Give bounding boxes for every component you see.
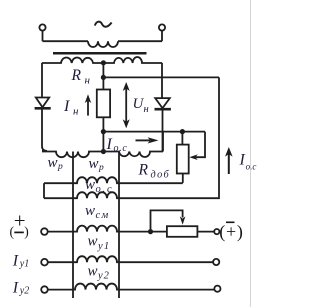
svg-text:доб: доб (151, 170, 171, 181)
winding row3 woc bottom (44, 192, 219, 198)
svg-text:н: н (144, 104, 149, 115)
wire top horizontal right (118, 40, 162, 42)
label plus minus left (10, 208, 29, 239)
transformer core (53, 52, 147, 55)
label Rn (71, 67, 91, 86)
svg-text:w: w (89, 156, 99, 172)
winding row2 woc top (44, 177, 183, 183)
svg-text:р: р (57, 162, 63, 172)
node wiper tap (148, 229, 153, 234)
wire right branch down (161, 63, 163, 98)
svg-text:w: w (48, 155, 58, 171)
winding row1 wp (42, 152, 163, 158)
label minus plus right (219, 222, 243, 243)
wire Rdob top stub (181, 132, 183, 145)
wire T2 down (161, 31, 163, 41)
arrow Ioc mid (136, 137, 159, 143)
label Ioc mid (106, 136, 128, 154)
arrow Ioc right up (225, 147, 233, 174)
svg-text:о.с: о.с (96, 184, 114, 195)
svg-text:у2: у2 (19, 286, 29, 297)
wire Rdob bottom stub (182, 174, 184, 183)
label Un (133, 96, 149, 115)
page edge artifact (250, 0, 252, 307)
svg-text:): ) (24, 224, 29, 239)
label Ioc right (239, 152, 257, 172)
label wy1 (88, 234, 111, 252)
svg-text:р: р (98, 163, 104, 173)
svg-text:н: н (73, 106, 79, 118)
wire pot to terminal (197, 231, 214, 233)
svg-text:I: I (106, 136, 113, 153)
potentiometer body (167, 226, 198, 237)
wire top horizontal left (43, 40, 89, 42)
svg-text:I: I (63, 98, 70, 115)
svg-text:(: ( (10, 224, 15, 239)
terminal T1 (AC left) (39, 24, 45, 30)
wire left branch to stack (42, 108, 47, 151)
diode VD2 (155, 98, 171, 109)
terminal Iy1 left (41, 259, 48, 266)
winding row6 wy2 (48, 284, 215, 290)
svg-text:R: R (71, 67, 82, 84)
label wy2 (88, 264, 110, 282)
label Iy1 (12, 252, 29, 269)
wire T1 down (42, 31, 44, 41)
winding row5 wy1 (48, 256, 213, 262)
label Rdob (138, 162, 171, 181)
svg-text:I: I (239, 152, 246, 169)
rheostat Rdob body (177, 145, 189, 174)
core leg left (72, 152, 74, 299)
svg-text:у1: у1 (19, 259, 29, 270)
arrowhead Rdob wiper (189, 154, 197, 160)
svg-text:R: R (138, 162, 149, 179)
svg-text:н: н (85, 74, 91, 86)
svg-text:о.с: о.с (246, 162, 257, 172)
AC tilde symbol (95, 22, 112, 27)
label wp left (48, 155, 64, 172)
wire Rdob top line (103, 131, 205, 133)
node B (101, 129, 106, 134)
winding primary W1 (88, 41, 118, 47)
wire left branch down (41, 63, 43, 98)
svg-text:о.с: о.с (114, 143, 128, 154)
wire right rail (218, 77, 220, 197)
svg-text:w: w (88, 234, 98, 250)
svg-text:w: w (88, 264, 98, 280)
wire Rn bottom (102, 117, 104, 151)
svg-text:I: I (12, 252, 19, 269)
core leg right (118, 152, 120, 299)
terminal Iy2 right (214, 286, 220, 292)
label woc (85, 177, 113, 195)
svg-text:(+): (+) (219, 222, 243, 243)
label wp right (89, 156, 105, 173)
winding row4 wcm (48, 226, 167, 232)
label wcm (85, 203, 109, 221)
terminal control minus (214, 229, 219, 234)
arrow Un double (123, 82, 130, 128)
terminal control plus (41, 228, 48, 235)
svg-text:I: I (12, 279, 19, 296)
svg-text:у2: у2 (97, 270, 110, 281)
wire Rdob wiper branch (193, 132, 205, 158)
label In (63, 98, 79, 118)
node row1 tap (101, 149, 106, 154)
diode VD1 (35, 98, 51, 109)
arrowhead pot wiper (180, 216, 186, 224)
svg-text:w: w (85, 203, 95, 219)
resistor Rn body (97, 90, 110, 118)
wire row1 right up (162, 132, 164, 152)
svg-text:у1: у1 (97, 241, 110, 252)
node Rdob top (180, 129, 185, 134)
wire center tap down (102, 63, 104, 90)
label Iy2 (12, 279, 29, 296)
wire woc left bracket (43, 183, 45, 198)
node A (101, 75, 106, 80)
svg-text:см: см (96, 210, 110, 221)
node center tap (101, 60, 106, 65)
wire right branch to row1 (162, 109, 164, 151)
winding secondary W2 (42, 57, 162, 63)
svg-text:w: w (85, 177, 95, 193)
terminal T2 (AC right) (159, 24, 165, 30)
terminal Iy1 right (213, 259, 219, 265)
terminal Iy2 left (41, 286, 48, 293)
wire feedback top (103, 76, 219, 78)
wire pot wiper (151, 210, 183, 231)
arrow In up (85, 94, 91, 115)
